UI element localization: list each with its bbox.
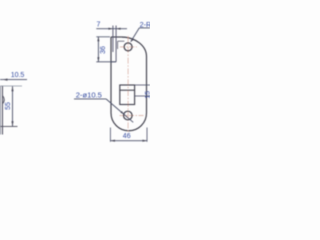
- dim 55 arrows: [11, 86, 13, 91]
- plate top edge: [111, 36, 121, 38]
- top hole circle: [124, 43, 132, 51]
- svg-text:10.5: 10.5: [11, 72, 25, 79]
- corner radius arc: [121, 37, 146, 57]
- svg-text:46: 46: [123, 133, 131, 140]
- dim 36 bottom extension: [96, 61, 116, 63]
- label 2-R underline: [139, 27, 150, 29]
- notch vertical right: [115, 26, 117, 62]
- notch vertical left: [112, 26, 114, 53]
- dim 36 arrows: [97, 37, 99, 42]
- slot inner line: [120, 89, 135, 91]
- dim 7 line: [96, 28, 127, 30]
- dim 46 arrows: [110, 140, 115, 142]
- notch bottom line: [111, 61, 116, 63]
- dim 10.5 arrow: [3, 79, 8, 81]
- right extension line lower: [135, 95, 150, 97]
- label 2-R leader: [131, 28, 140, 42]
- bottom hole centerline horizontal: [120, 115, 144, 117]
- dim 7 arrows: [108, 28, 113, 30]
- dim 46 right extension: [146, 128, 148, 142]
- label 2-R arrowhead: [131, 39, 134, 42]
- svg-text:2-ø10.5: 2-ø10.5: [76, 91, 102, 100]
- dim 46 line: [110, 140, 147, 142]
- svg-text:15: 15: [145, 91, 151, 99]
- middle slot rectangle: [120, 85, 135, 105]
- svg-text:55: 55: [5, 102, 12, 110]
- step line vertical: [117, 41, 119, 49]
- dim 36 top extension: [96, 36, 110, 38]
- dim 46 left extension: [109, 128, 111, 142]
- bottom U arc: [111, 113, 147, 131]
- top edge line: [0, 85, 22, 87]
- top hole centerline horizontal: [120, 46, 137, 48]
- bottom hole circle: [124, 111, 133, 120]
- right extension line upper: [135, 84, 150, 86]
- label 2-dia10.5 underline: [74, 98, 106, 100]
- svg-text:7: 7: [97, 22, 101, 29]
- step line horizontal: [118, 40, 125, 42]
- dim 36 line: [97, 37, 99, 62]
- plate left edge: [110, 37, 112, 113]
- right face vertical: [2, 86, 4, 135]
- dim 10.5 line: [0, 79, 27, 81]
- dim 55 line: [12, 86, 14, 126]
- main vertical centerline: [127, 36, 129, 134]
- plate right edge: [146, 57, 148, 114]
- bottom extension line: [0, 125, 18, 127]
- left face sliver at image edge: [0, 86, 1, 135]
- label 2-dia10.5 arrowhead: [120, 111, 123, 114]
- svg-text:36: 36: [100, 46, 107, 54]
- boss arc bulge: [3, 96, 5, 105]
- label 2-dia10.5 leader: [106, 99, 133, 122]
